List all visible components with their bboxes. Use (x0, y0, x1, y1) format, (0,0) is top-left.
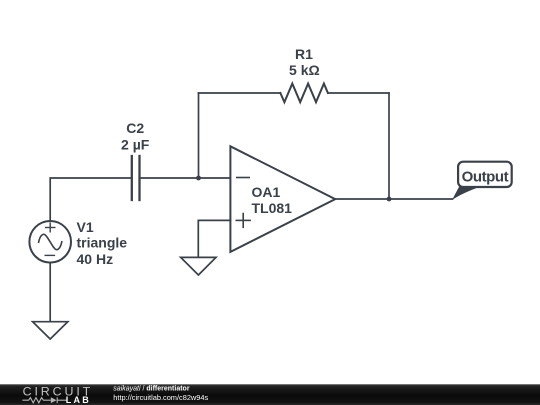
op-amp U1 OA1 triangle body (230, 146, 335, 252)
wire V1 top to C2 left plate (50, 178, 130, 221)
svg-text:V1: V1 (77, 219, 94, 235)
svg-text:triangle: triangle (77, 235, 128, 251)
wire C2 right plate to op-amp inverting input (141, 177, 231, 179)
wire non-inverting input to ground (198, 220, 230, 257)
svg-text:Output: Output (462, 169, 509, 186)
op-amp non-inverting input plus sign (236, 214, 250, 228)
footer bar (0, 384, 540, 405)
wire feedback left vertical (198, 93, 200, 178)
voltage source V1 circle (29, 221, 71, 263)
svg-text:http://circuitlab.com/c82w94s: http://circuitlab.com/c82w94s (113, 393, 208, 402)
output flag box (458, 162, 512, 187)
wire V1 bottom to ground (49, 263, 51, 322)
V1 minus sign (45, 254, 54, 256)
V1 plus sign (46, 223, 55, 232)
svg-text:2 µF: 2 µF (121, 136, 150, 152)
svg-text:C2: C2 (126, 120, 144, 136)
V1 sine waveform glyph (39, 234, 62, 249)
wire feedback top right (328, 92, 389, 94)
node A junction dot (196, 176, 201, 181)
ground (op-amp non-inverting input) (181, 257, 216, 275)
svg-text:R1: R1 (295, 46, 313, 62)
wire feedback right vertical (388, 93, 390, 199)
CircuitLab logo schematic line with resistor and diode (22, 397, 66, 403)
wire op-amp output (335, 198, 452, 200)
svg-text:LAB: LAB (66, 395, 91, 405)
svg-text:40 Hz: 40 Hz (77, 251, 114, 267)
svg-text:saikayati / differentiator: saikayati / differentiator (113, 385, 190, 392)
svg-text:TL081: TL081 (252, 200, 293, 216)
output flag pointer (452, 186, 481, 200)
wire feedback top left (199, 92, 281, 94)
op-amp inverting input minus sign (237, 177, 249, 179)
node output junction dot (387, 197, 392, 202)
ground (V1) (33, 322, 68, 339)
svg-text:5 kΩ: 5 kΩ (289, 62, 320, 78)
capacitor C2 (132, 156, 140, 200)
svg-text:OA1: OA1 (252, 184, 281, 200)
resistor R1 (280, 84, 328, 103)
